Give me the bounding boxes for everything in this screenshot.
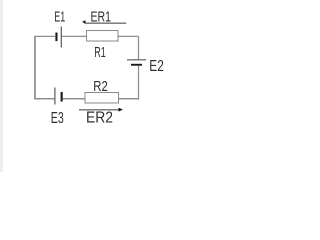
svg-text:E3: E3 xyxy=(51,110,64,127)
svg-text:ER2: ER2 xyxy=(86,109,113,126)
svg-text:E1: E1 xyxy=(54,9,65,26)
svg-text:ER1: ER1 xyxy=(91,8,112,25)
svg-text:E2: E2 xyxy=(149,58,164,75)
svg-text:R1: R1 xyxy=(94,44,106,61)
svg-text:R2: R2 xyxy=(93,78,108,95)
